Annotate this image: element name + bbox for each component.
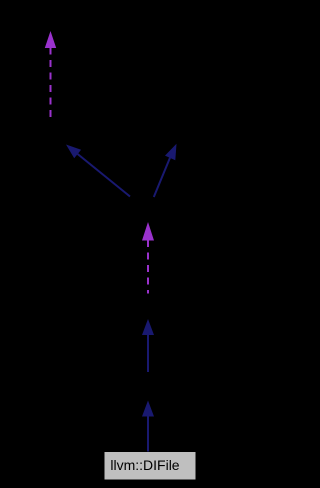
edge E6 solid inheritance arrow (node llvm::DIFile to node5) [142, 401, 154, 452]
edge E4 dashed usage arrow (node4 to node3) [142, 222, 154, 294]
edge E1 dashed usage arrow (node2a to node1) [45, 31, 56, 118]
svg-text:llvm::DIFile: llvm::DIFile [110, 457, 179, 473]
edge E3 solid inheritance arrow (node3 to node2b) [154, 144, 177, 197]
edge E5 solid inheritance arrow (node5 to node4) [142, 319, 154, 372]
edge E2 solid inheritance arrow (node3 to node2a) [66, 145, 130, 197]
node llvm::DIFile [105, 452, 196, 480]
